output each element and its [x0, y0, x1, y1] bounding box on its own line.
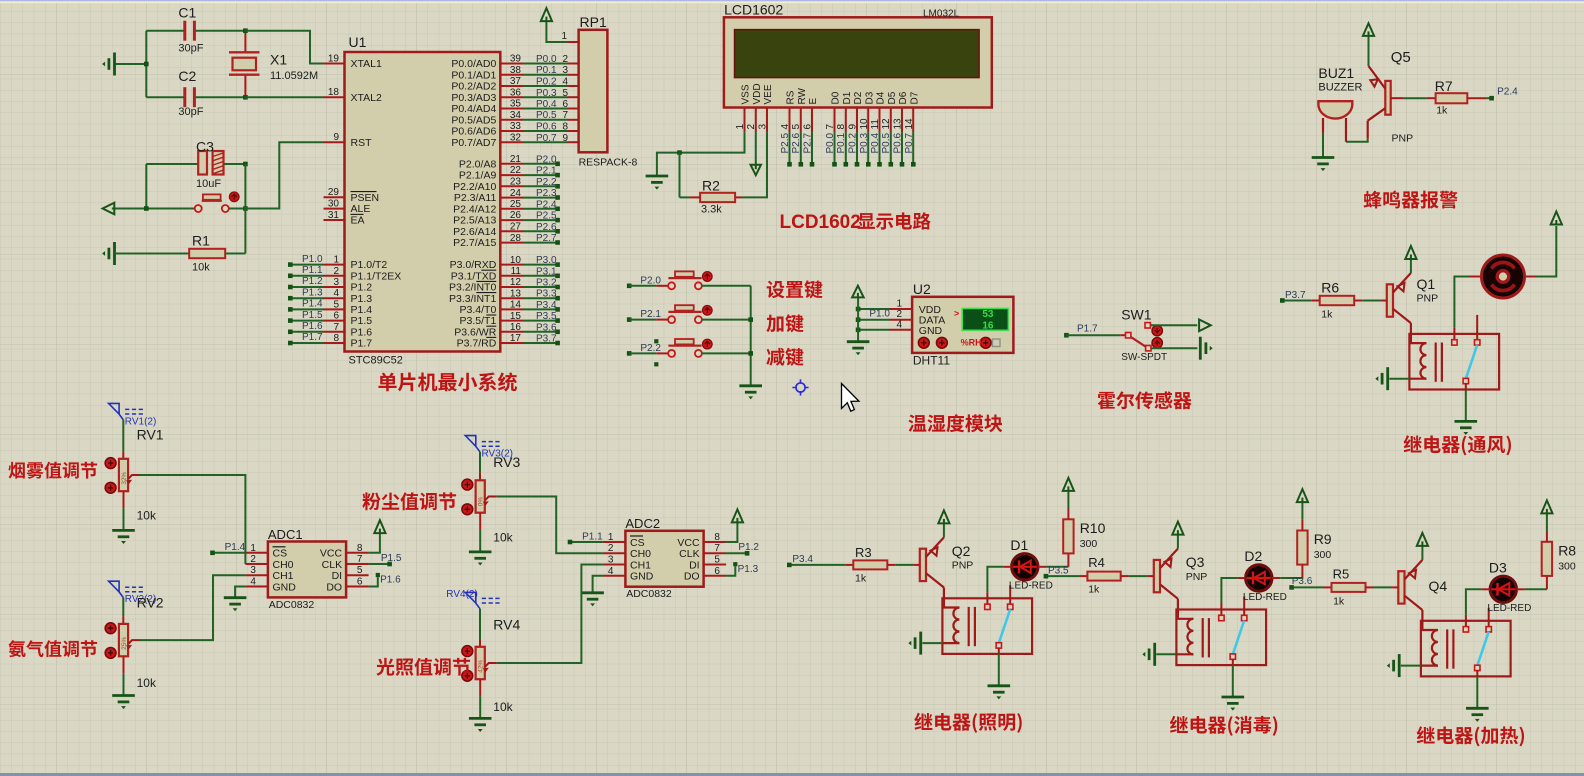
svg-text:XTAL1: XTAL1	[351, 58, 382, 70]
svg-text:U1: U1	[349, 34, 367, 50]
svg-text:VDD: VDD	[752, 83, 763, 104]
svg-text:P2.2: P2.2	[640, 343, 661, 354]
svg-text:6: 6	[714, 566, 720, 577]
svg-text:P3.6: P3.6	[536, 322, 557, 333]
svg-text:P1.6: P1.6	[351, 326, 373, 338]
svg-text:2: 2	[250, 554, 256, 565]
svg-text:R2: R2	[702, 178, 720, 194]
svg-text:VCC: VCC	[320, 548, 343, 560]
svg-text:36: 36	[510, 88, 522, 99]
svg-text:1: 1	[250, 543, 256, 554]
svg-text:D5: D5	[887, 91, 898, 104]
svg-text:P0.2: P0.2	[848, 132, 859, 153]
svg-text:P1.0/T2: P1.0/T2	[351, 259, 388, 271]
svg-text:CLK: CLK	[679, 548, 699, 560]
svg-text:P1.7: P1.7	[302, 332, 323, 343]
svg-text:RV2: RV2	[137, 595, 164, 611]
svg-text:10uF: 10uF	[196, 178, 221, 190]
svg-text:P3.5: P3.5	[536, 311, 557, 322]
svg-text:10: 10	[510, 255, 522, 266]
svg-text:D4: D4	[876, 91, 887, 104]
svg-text:P0.0/AD0: P0.0/AD0	[451, 58, 496, 70]
svg-text:P0.0: P0.0	[825, 132, 836, 153]
svg-text:7: 7	[357, 554, 363, 565]
svg-text:R7: R7	[1435, 78, 1453, 94]
svg-text:3: 3	[608, 555, 614, 566]
svg-text:13: 13	[893, 118, 904, 130]
svg-text:P1.2: P1.2	[738, 542, 759, 553]
svg-text:D2: D2	[853, 91, 864, 104]
svg-text:P0.1: P0.1	[536, 65, 557, 76]
svg-text:3: 3	[562, 65, 568, 76]
svg-text:5: 5	[333, 299, 339, 310]
svg-text:CH1: CH1	[273, 570, 294, 582]
svg-text:P1.4: P1.4	[302, 299, 323, 310]
svg-text:28: 28	[510, 233, 522, 244]
svg-text:P1.4: P1.4	[351, 304, 373, 316]
svg-text:P1.5: P1.5	[351, 315, 373, 327]
svg-text:PNP: PNP	[1392, 132, 1414, 144]
svg-text:37: 37	[510, 76, 522, 87]
svg-text:23: 23	[510, 177, 522, 188]
svg-text:RESPACK-8: RESPACK-8	[579, 157, 638, 169]
svg-text:30: 30	[328, 199, 340, 210]
svg-text:5: 5	[791, 124, 802, 130]
svg-text:C2: C2	[178, 68, 196, 84]
svg-text:P2.1/A9: P2.1/A9	[459, 170, 497, 182]
svg-text:P2.0/A8: P2.0/A8	[459, 158, 497, 170]
svg-text:8: 8	[714, 532, 720, 543]
svg-text:5: 5	[562, 88, 568, 99]
svg-text:P3.4/T0: P3.4/T0	[460, 304, 497, 316]
svg-text:R4: R4	[1088, 555, 1105, 570]
svg-text:P2.3/A11: P2.3/A11	[454, 192, 497, 204]
svg-text:P3.3: P3.3	[536, 289, 557, 300]
svg-text:LED-RED: LED-RED	[1243, 592, 1287, 603]
svg-text:SW1: SW1	[1121, 306, 1152, 322]
svg-text:4: 4	[608, 566, 614, 577]
svg-text:C1: C1	[178, 5, 196, 21]
svg-text:P2.4: P2.4	[536, 199, 557, 210]
svg-text:10k: 10k	[137, 676, 157, 690]
svg-text:>: >	[954, 309, 959, 319]
svg-text:24: 24	[510, 188, 522, 199]
svg-text:P2.1: P2.1	[536, 166, 557, 177]
svg-text:10k: 10k	[493, 700, 513, 714]
svg-text:R10: R10	[1080, 520, 1106, 536]
svg-text:3: 3	[250, 565, 256, 576]
svg-text:P1.1/T2EX: P1.1/T2EX	[351, 270, 402, 282]
svg-text:RV4(2): RV4(2)	[446, 589, 478, 600]
svg-text:8: 8	[357, 543, 363, 554]
svg-text:P3.0: P3.0	[536, 255, 557, 266]
svg-text:12: 12	[510, 277, 522, 288]
svg-text:P0.3: P0.3	[536, 88, 557, 99]
svg-text:P0.0: P0.0	[536, 54, 557, 65]
svg-text:1: 1	[608, 532, 614, 543]
svg-text:ADC0832: ADC0832	[626, 588, 672, 600]
svg-text:P0.2/AD2: P0.2/AD2	[451, 81, 496, 93]
svg-text:300: 300	[1314, 549, 1332, 561]
svg-text:PNP: PNP	[1186, 571, 1208, 583]
svg-text:P3.5/T1: P3.5/T1	[460, 315, 497, 327]
svg-text:P0.7: P0.7	[904, 132, 915, 153]
svg-text:9: 9	[562, 133, 568, 144]
svg-text:P1.5: P1.5	[381, 553, 402, 564]
svg-text:ADC2: ADC2	[625, 516, 660, 531]
svg-text:STC89C52: STC89C52	[349, 355, 403, 367]
svg-text:P1.2: P1.2	[351, 282, 373, 294]
svg-text:P0.5: P0.5	[536, 110, 557, 121]
svg-text:11: 11	[870, 119, 881, 130]
svg-text:P0.3/AD3: P0.3/AD3	[451, 92, 496, 104]
svg-text:P1.3: P1.3	[302, 287, 323, 298]
svg-text:32%: 32%	[121, 472, 128, 485]
svg-text:GND: GND	[919, 325, 943, 337]
svg-text:10: 10	[859, 118, 870, 130]
svg-text:34: 34	[510, 110, 522, 121]
svg-text:ADC0832: ADC0832	[269, 599, 315, 611]
svg-text:RP1: RP1	[580, 14, 607, 30]
svg-text:10k: 10k	[192, 262, 210, 274]
svg-text:P1.2: P1.2	[302, 276, 323, 287]
svg-text:P1.3: P1.3	[738, 564, 759, 575]
svg-text:7: 7	[825, 124, 836, 130]
svg-text:BUZZER: BUZZER	[1318, 81, 1362, 93]
svg-text:7: 7	[714, 543, 720, 554]
svg-text:P0.6: P0.6	[536, 122, 557, 133]
svg-text:11: 11	[511, 266, 522, 277]
svg-text:P1.1: P1.1	[302, 265, 323, 276]
svg-text:CH0: CH0	[273, 559, 294, 571]
svg-text:P2.7/A15: P2.7/A15	[453, 237, 496, 249]
svg-text:SW-SPDT: SW-SPDT	[1121, 352, 1167, 363]
svg-text:C3: C3	[196, 139, 214, 155]
svg-text:1k: 1k	[855, 573, 867, 585]
svg-text:LED-RED: LED-RED	[1009, 581, 1053, 592]
svg-text:32: 32	[510, 132, 522, 143]
svg-text:RV4: RV4	[493, 616, 520, 632]
svg-text:P0.5: P0.5	[881, 132, 892, 153]
svg-text:R6: R6	[1321, 280, 1339, 296]
svg-text:P2.4: P2.4	[1497, 86, 1518, 97]
svg-text:P2.6: P2.6	[536, 222, 557, 233]
svg-text:P0.4: P0.4	[870, 132, 881, 153]
svg-text:53: 53	[982, 309, 994, 320]
svg-text:CS: CS	[630, 537, 645, 549]
svg-text:CH0: CH0	[630, 548, 651, 560]
svg-text:P3.2: P3.2	[536, 278, 557, 289]
svg-text:4: 4	[562, 77, 568, 88]
svg-text:1: 1	[896, 299, 902, 310]
svg-text:21: 21	[510, 154, 522, 165]
svg-text:D3: D3	[1489, 560, 1507, 576]
svg-text:33: 33	[510, 121, 522, 132]
svg-text:0%: 0%	[478, 497, 485, 507]
svg-text:19: 19	[328, 54, 340, 65]
svg-text:R3: R3	[855, 545, 872, 560]
svg-text:13: 13	[510, 288, 522, 299]
svg-text:PNP: PNP	[1417, 293, 1439, 305]
svg-text:P3.1: P3.1	[536, 266, 557, 277]
svg-text:P0.1: P0.1	[836, 132, 847, 153]
svg-text:7: 7	[333, 322, 339, 333]
svg-text:1: 1	[735, 124, 746, 130]
svg-text:LCD1602: LCD1602	[724, 2, 783, 18]
svg-text:1k: 1k	[1333, 596, 1345, 608]
svg-text:RS: RS	[786, 90, 797, 104]
svg-text:PSEN: PSEN	[351, 192, 380, 204]
svg-text:P3.4: P3.4	[792, 554, 813, 565]
svg-text:P0.2: P0.2	[536, 77, 557, 88]
svg-text:27: 27	[510, 222, 522, 233]
svg-text:7: 7	[562, 110, 568, 121]
svg-text:10k: 10k	[493, 531, 513, 545]
svg-text:1k: 1k	[1436, 104, 1448, 116]
svg-text:RW: RW	[797, 87, 808, 104]
svg-text:Q1: Q1	[1417, 276, 1436, 292]
svg-text:3.3k: 3.3k	[701, 204, 722, 216]
svg-text:1: 1	[561, 31, 567, 42]
svg-text:P0.3: P0.3	[859, 132, 870, 153]
svg-text:P0.7/AD7: P0.7/AD7	[451, 137, 496, 149]
svg-text:R9: R9	[1314, 531, 1332, 547]
svg-text:P2.0: P2.0	[536, 154, 557, 165]
svg-text:CH1: CH1	[630, 559, 651, 571]
svg-text:P1.4: P1.4	[225, 542, 246, 553]
svg-text:U2: U2	[913, 281, 931, 297]
svg-text:XTAL2: XTAL2	[351, 92, 382, 104]
svg-text:PNP: PNP	[952, 560, 974, 572]
svg-text:RV1: RV1	[137, 427, 164, 443]
svg-text:5: 5	[357, 565, 363, 576]
svg-text:12: 12	[881, 118, 892, 130]
svg-text:CS: CS	[273, 548, 288, 560]
svg-text:17: 17	[510, 333, 522, 344]
svg-text:P1.5: P1.5	[302, 310, 323, 321]
svg-text:P2.4/A12: P2.4/A12	[453, 203, 496, 215]
svg-text:P2.6: P2.6	[791, 132, 802, 153]
svg-text:LCD1602: LCD1602	[780, 212, 861, 233]
svg-text:D1: D1	[842, 91, 853, 104]
svg-text:X1: X1	[270, 52, 287, 68]
svg-text:15: 15	[510, 311, 522, 322]
svg-text:P3.5: P3.5	[1048, 566, 1069, 577]
svg-text:P0.1/AD1: P0.1/AD1	[451, 69, 496, 81]
svg-text:CLK: CLK	[322, 559, 342, 571]
svg-text:9: 9	[848, 124, 859, 130]
svg-text:P0.6: P0.6	[893, 132, 904, 153]
svg-text:3: 3	[333, 277, 339, 288]
svg-text:8: 8	[562, 122, 568, 133]
svg-text:P0.4: P0.4	[536, 99, 557, 110]
svg-text:%RH: %RH	[961, 338, 982, 348]
svg-text:6: 6	[562, 99, 568, 110]
svg-text:1k: 1k	[1088, 584, 1100, 596]
svg-text:1: 1	[333, 255, 339, 266]
svg-text:4: 4	[780, 124, 791, 130]
svg-text:22: 22	[510, 165, 522, 176]
svg-text:14: 14	[510, 300, 522, 311]
svg-text:29: 29	[328, 187, 340, 198]
svg-text:D7: D7	[910, 91, 921, 104]
svg-text:RV3: RV3	[493, 454, 520, 470]
svg-text:300: 300	[1080, 538, 1098, 550]
svg-text:DHT11: DHT11	[913, 354, 950, 368]
svg-text:Q3: Q3	[1186, 554, 1205, 570]
svg-text:Q5: Q5	[1391, 49, 1411, 66]
svg-text:3: 3	[758, 124, 769, 130]
svg-text:P1.1: P1.1	[582, 532, 603, 543]
svg-text:P1.7: P1.7	[351, 338, 373, 350]
svg-text:P2.5/A13: P2.5/A13	[453, 215, 496, 227]
svg-text:E: E	[808, 98, 819, 105]
svg-text:2: 2	[608, 543, 614, 554]
svg-text:P0.6/AD6: P0.6/AD6	[451, 126, 496, 138]
svg-text:P1.3: P1.3	[351, 293, 373, 305]
svg-text:39: 39	[510, 54, 522, 65]
svg-text:P3.6: P3.6	[1292, 576, 1313, 587]
svg-text:P2.1: P2.1	[640, 309, 661, 320]
svg-text:18: 18	[328, 87, 340, 98]
svg-text:D0: D0	[831, 91, 842, 104]
svg-text:P3.6/WR: P3.6/WR	[454, 326, 496, 338]
svg-text:VEE: VEE	[763, 84, 774, 104]
svg-text:DI: DI	[332, 570, 343, 582]
svg-text:31: 31	[328, 210, 340, 221]
svg-text:6: 6	[803, 124, 814, 130]
svg-text:6: 6	[333, 311, 339, 322]
svg-text:P1.0: P1.0	[869, 309, 890, 320]
svg-text:38: 38	[510, 65, 522, 76]
svg-text:P2.5: P2.5	[536, 211, 557, 222]
svg-text:ADC1: ADC1	[268, 527, 303, 542]
svg-text:16: 16	[510, 322, 522, 333]
svg-text:P3.4: P3.4	[536, 300, 557, 311]
svg-text:42%: 42%	[478, 660, 485, 673]
svg-text:P0.5/AD5: P0.5/AD5	[451, 114, 496, 126]
svg-text:LED-RED: LED-RED	[1487, 603, 1531, 614]
svg-text:9: 9	[333, 132, 339, 143]
svg-text:R8: R8	[1558, 543, 1576, 559]
svg-text:P1.0: P1.0	[302, 254, 323, 265]
svg-text:30pF: 30pF	[178, 43, 203, 55]
svg-text:P2.2/A10: P2.2/A10	[453, 181, 496, 193]
svg-text:DO: DO	[684, 571, 700, 583]
svg-text:VCC: VCC	[677, 537, 700, 549]
svg-text:P3.2/INT0: P3.2/INT0	[449, 282, 496, 294]
svg-text:4: 4	[333, 288, 339, 299]
svg-text:P3.1/TXD: P3.1/TXD	[451, 270, 497, 282]
svg-text:R1: R1	[192, 233, 210, 249]
svg-text:P2.7: P2.7	[536, 233, 557, 244]
svg-text:16: 16	[982, 320, 994, 331]
svg-text:Q2: Q2	[952, 543, 971, 559]
svg-text:P3.0/RXD: P3.0/RXD	[450, 259, 497, 271]
svg-text:2: 2	[333, 266, 339, 277]
svg-text:P3.3/INT1: P3.3/INT1	[449, 293, 496, 305]
svg-text:D3: D3	[865, 91, 876, 104]
svg-text:P2.6/A14: P2.6/A14	[453, 226, 496, 238]
svg-text:EA: EA	[351, 215, 365, 227]
svg-text:5: 5	[714, 555, 720, 566]
svg-text:26: 26	[510, 210, 522, 221]
svg-text:2: 2	[562, 54, 568, 65]
svg-text:8: 8	[333, 333, 339, 344]
svg-text:DO: DO	[326, 581, 342, 593]
svg-text:P0.7: P0.7	[536, 133, 557, 144]
svg-text:25: 25	[510, 199, 522, 210]
svg-text:35: 35	[510, 99, 522, 110]
svg-text:GND: GND	[273, 581, 297, 593]
svg-text:P3.7: P3.7	[536, 334, 557, 345]
svg-text:D6: D6	[898, 91, 909, 104]
svg-text:30pF: 30pF	[178, 106, 203, 118]
svg-text:LM032L: LM032L	[923, 9, 960, 20]
svg-text:4: 4	[896, 319, 902, 330]
svg-text:11.0592M: 11.0592M	[270, 70, 318, 82]
svg-text:R5: R5	[1333, 567, 1350, 582]
svg-text:DI: DI	[689, 559, 700, 571]
svg-text:Q4: Q4	[1429, 578, 1448, 594]
svg-text:VSS: VSS	[741, 84, 752, 104]
svg-text:P2.3: P2.3	[536, 188, 557, 199]
svg-text:1k: 1k	[1321, 309, 1333, 321]
svg-text:P2.5: P2.5	[780, 132, 791, 153]
svg-text:P1.6: P1.6	[380, 575, 401, 586]
svg-text:BUZ1: BUZ1	[1318, 65, 1354, 81]
svg-text:4: 4	[250, 577, 256, 588]
svg-text:P2.2: P2.2	[536, 177, 557, 188]
svg-text:25%: 25%	[121, 637, 128, 650]
svg-text:P1.7: P1.7	[1077, 324, 1098, 335]
svg-text:P2.7: P2.7	[803, 132, 814, 153]
svg-text:D2: D2	[1244, 548, 1262, 564]
svg-text:D1: D1	[1010, 537, 1028, 553]
svg-text:6: 6	[357, 577, 363, 588]
svg-text:14: 14	[904, 118, 915, 130]
svg-text:P3.7/RD: P3.7/RD	[457, 338, 497, 350]
svg-text:ALE: ALE	[351, 203, 371, 215]
svg-text:2: 2	[746, 124, 757, 130]
svg-text:8: 8	[836, 124, 847, 130]
svg-text:P0.4/AD4: P0.4/AD4	[451, 103, 496, 115]
svg-text:RST: RST	[351, 137, 373, 149]
svg-text:P2.0: P2.0	[640, 275, 661, 286]
svg-text:300: 300	[1558, 561, 1576, 573]
svg-text:P3.7: P3.7	[1285, 290, 1306, 301]
svg-text:GND: GND	[630, 571, 654, 583]
svg-text:P1.6: P1.6	[302, 321, 323, 332]
svg-text:10k: 10k	[137, 509, 157, 523]
